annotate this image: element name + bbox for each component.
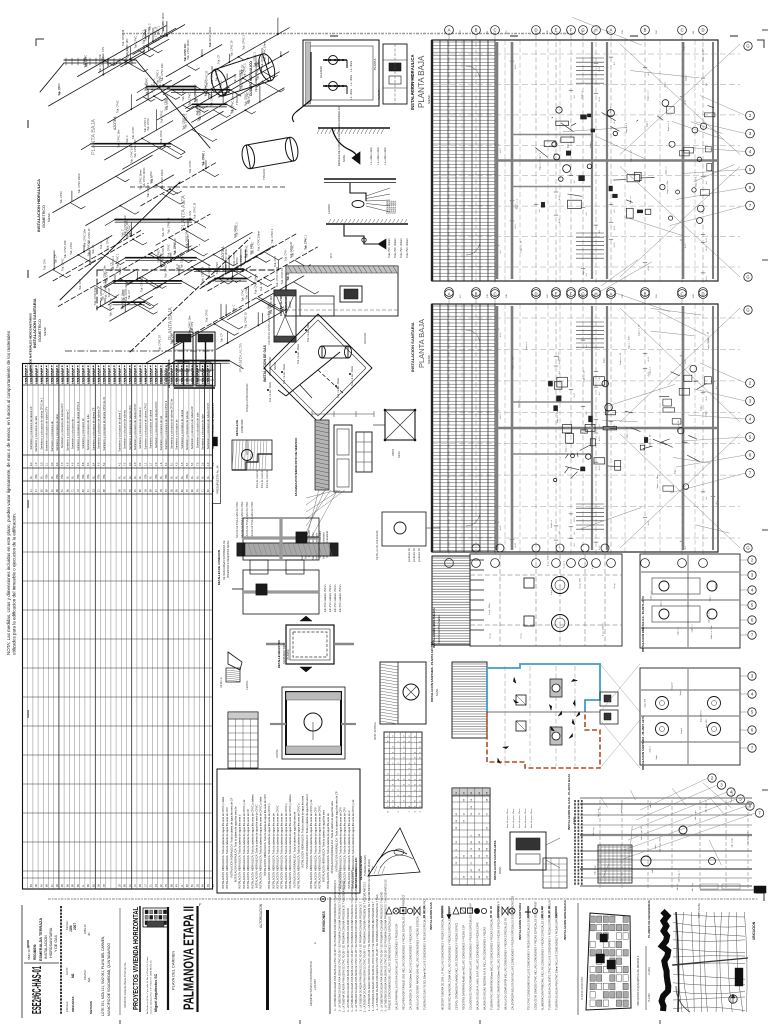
legend entry: CODO DE 90 GRADOS CPVC — [532, 908, 537, 913]
svg-text:ISOMETRICO: ISOMETRICO — [42, 205, 46, 228]
long dashed run upper sanitary isometric — [130, 186, 285, 188]
svg-text:baja 1: baja 1 — [649, 745, 651, 752]
svg-text:Suministro y colocacion de tub: Suministro y colocacion de tuberia CP — [29, 406, 33, 449]
instalacion sanitaria planta baja door swing arcs — [466, 330, 480, 344]
svg-text:DE DESCARGAS SANITARIAS DE: DE DESCARGAS SANITARIAS DE — [223, 540, 226, 580]
svg-text:COLADERA DE PISO CROMADA INCLU: COLADERA DE PISO CROMADA INCLUYE CONEXIO… — [470, 903, 473, 1010]
svg-text:INSTALACION HIDRAULICA: Toda l: INSTALACION HIDRAULICA: Toda la tuberia … — [280, 813, 284, 889]
svg-text:INSTALACION SANITARIA - PLANTA: INSTALACION SANITARIA - PLANTA ALTA — [641, 716, 645, 770]
instalacion sanitaria planta baja extra vertical partition lines — [461, 304, 463, 552]
svg-text:REGIMEN:: REGIMEN: — [33, 944, 37, 960]
svg-text:Tub. CPVC 19mm: Tub. CPVC 19mm — [78, 173, 81, 193]
svg-text:Tub. CP: Tub. CP — [162, 227, 165, 236]
legend entry: BAJADA DE AGUA PLUVIAL B — [474, 908, 479, 913]
svg-text:Tub. CPVC: Tub. CPVC — [132, 126, 135, 139]
svg-text:PALMANOVA ETAPA II: PALMANOVA ETAPA II — [182, 906, 198, 1010]
svg-text:INSTALACION HIDRAULICA: Toda l: INSTALACION HIDRAULICA: Toda la tuberia … — [309, 799, 313, 889]
legend entry: MEDIDOR TUBERIA DE GAS L — [441, 906, 443, 918]
svg-text:INSTALACION HIDRAULICA: Toda l: INSTALACION HIDRAULICA: Toda la tuberia … — [259, 796, 263, 889]
svg-text:Tub. C: Tub. C — [119, 267, 122, 275]
detail: registro section with circle — [282, 687, 345, 759]
svg-text:INSTALACION SANITARIA - PLANTA: INSTALACION SANITARIA - PLANTA AZOTEA — [430, 642, 434, 702]
svg-text:INSTALACION SANITARIA: INSTALACION SANITARIA — [32, 298, 37, 348]
svg-text:PLANO: PLANO — [648, 993, 651, 1002]
svg-text:TEE CPVC CONEXIONES INCLUYE CO: TEE CPVC CONEXIONES INCLUYE CONEXIONES Y… — [528, 905, 531, 1010]
svg-text:Tub. CPVC: Tub. CPVC — [252, 242, 255, 255]
svg-text:TINACO: TINACO — [235, 93, 239, 105]
svg-text:baja c.o. 1: baja c.o. 1 — [696, 176, 698, 187]
svg-text:TUBERIA DE AGUA CALIENTE CPVC: TUBERIA DE AGUA CALIENTE CPVC INCLUYE CO… — [549, 900, 552, 1010]
svg-text:Tub. CPV: Tub. CPV — [44, 259, 47, 270]
svg-text:baja c.o. 19: baja c.o. 19 — [521, 240, 523, 252]
svg-text:INSTALACION DE GAS: INSTALACION DE GAS — [263, 344, 267, 382]
colored plan right appendage rects — [600, 692, 618, 706]
svg-text:CORTE: CORTE — [276, 749, 279, 758]
colored plan left hatch strip — [452, 662, 487, 738]
legend entry: COLADERA DE PISO CROMADA — [467, 908, 472, 913]
svg-text:DETALLE DE: DETALLE DE — [235, 420, 239, 436]
azotea tinacos (two circles) — [552, 577, 569, 594]
svg-text:PZA: PZA — [82, 474, 85, 479]
svg-text:tub. f: tub. f — [654, 843, 657, 848]
svg-text:b.a.p: b.a.p — [521, 633, 523, 639]
svg-text:Suministro y colocacion de tub: Suministro y colocacion de tuberia CP — [97, 406, 101, 449]
svg-text:baja c.o.: baja c.o. — [666, 166, 668, 175]
svg-text:Tub. CPVC 19m: Tub. CPVC 19m — [104, 265, 107, 283]
svg-text:b.a.p. 100mm: b.a.p. 100mm — [547, 553, 549, 567]
svg-text:BAJADA DE AGUAS NEGRAS B.A.N.: BAJADA DE AGUAS NEGRAS B.A.N. INCLUYE CO… — [484, 927, 487, 1010]
svg-text:VER ISOMETRICO HID. 1: VER ISOMETRICO HID. 1 — [254, 60, 258, 92]
svg-text:baja c.o. 19m: baja c.o. 19m — [629, 335, 631, 348]
svg-text:Tub. CPVC: Tub. CPVC — [165, 265, 168, 278]
svg-text:Tub. CPVC: Tub. CPVC — [135, 36, 138, 49]
svg-text:Tub. CPVC: Tub. CPVC — [206, 309, 209, 322]
detail: registro sanitario tipo (plan) — [286, 625, 334, 664]
svg-text:TUBERIA PVC SANITARIO 50mm INC: TUBERIA PVC SANITARIO 50mm INCLUYE CONEX… — [491, 918, 494, 1010]
legend entry: TUBERIA DE AGUA FRIA CPV — [555, 906, 557, 918]
svg-text:INSTALACION HIDRAULICA: Toda l: INSTALACION HIDRAULICA: Toda la tuberia … — [288, 794, 292, 889]
svg-text:Tub. CPVC: Tub. CPVC — [174, 242, 177, 255]
svg-text:CESPOL CROMADO P/LAVABO INCLUY: CESPOL CROMADO P/LAVABO INCLUYE CONEXION… — [456, 923, 459, 1010]
title block B: fields header dense line — [60, 906, 62, 1014]
table group separator verticals — [58, 364, 60, 890]
instalacion sanitaria planta baja column grid bubbles bottom row — [445, 559, 454, 568]
svg-text:Tub. Fo.Go. 19mm: Tub. Fo.Go. 19mm — [297, 344, 300, 364]
svg-text:INSTALACION HIDRAULICA: Toda l: INSTALACION HIDRAULICA: Toda la tuberia … — [271, 813, 275, 889]
svg-text:pendiente 2%: pendiente 2% — [413, 548, 416, 562]
svg-text:tub. fo.go.: tub. fo.go. — [620, 803, 623, 813]
svg-text:Tub. CPVC 1: Tub. CPVC 1 — [142, 29, 145, 44]
svg-text:b.a.p. 100m: b.a.p. 100m — [551, 583, 553, 595]
svg-text:Tuerca union: Tuerca union — [394, 200, 397, 214]
top-right tiny reference boxes above title strip — [700, 889, 754, 891]
svg-text:Suministro y colocacion de tub: Suministro y colocacion de tuberia CPV — [128, 405, 132, 450]
svg-text:INSTALACION HIDRAULICA: Toda l: INSTALACION HIDRAULICA: Toda la tuberia … — [343, 807, 347, 889]
table: mini grid under palapa — [543, 858, 567, 888]
logo: miguel arquitectos building icon — [143, 908, 168, 927]
svg-text:PZA: PZA — [98, 474, 101, 479]
svg-text:tubo PVC sanitario 150mm: tubo PVC sanitario 150mm — [334, 584, 337, 612]
svg-text:Suministro y colocacion de tub: Suministro y colocacion de tuberia CPVC — [211, 403, 215, 450]
svg-text:1.- LA TUBERIA DE AGUA FRIA SE: 1.- LA TUBERIA DE AGUA FRIA SERA DE CPVC… — [376, 894, 379, 1010]
svg-text:BAJADA DE AGUA PLUVIAL B.A.P.: BAJADA DE AGUA PLUVIAL B.A.P. INCLUYE CO… — [477, 922, 480, 1010]
svg-text:ALIMENTACION PRINCIPAL INCLUYE: ALIMENTACION PRINCIPAL INCLUYE CONEXIONE… — [542, 907, 545, 1010]
detail: ducto de ventilacion — [274, 290, 296, 342]
svg-text:INSTALACION HIDRAULICA: Toda l: INSTALACION HIDRAULICA: Toda la tuberia … — [225, 807, 229, 889]
svg-text:sube c.o.: sube c.o. — [650, 591, 652, 600]
svg-text:llave de paso 13mm: llave de paso 13mm — [507, 808, 509, 828]
svg-text:DETALLE DE PASO: DETALLE DE PASO — [359, 856, 363, 880]
street map main avenue thick — [676, 912, 679, 1012]
svg-text:Tub. CPVC: Tub. CPVC — [244, 93, 247, 106]
gas plan left tiny text column — [574, 800, 576, 885]
svg-text:F: F — [570, 292, 573, 297]
svg-text:sube c.o. 13: sube c.o. 13 — [708, 611, 710, 624]
svg-text:Tub. C: Tub. C — [232, 304, 235, 312]
svg-text:Suministro y colocacion de: Suministro y colocacion de — [50, 421, 54, 452]
svg-text:DETALLES DE CONEXION: DETALLES DE CONEXION — [217, 550, 221, 585]
svg-text:Suministro y colocacion de tub: Suministro y colocacion de tuberia CPV — [60, 403, 64, 448]
svg-text:B: B — [644, 28, 647, 33]
svg-text:PLANTA BAJA: PLANTA BAJA — [417, 319, 426, 368]
svg-text:Tub. CPVC 19m: Tub. CPVC 19m — [125, 283, 128, 301]
svg-text:baja c.o.: baja c.o. — [519, 399, 521, 408]
svg-text:Tubo PVC 100mm: Tubo PVC 100mm — [406, 238, 409, 258]
svg-text:tub. fo.g: tub. fo.g — [597, 808, 600, 817]
svg-text:sube c.: sube c. — [661, 599, 663, 606]
svg-text:baja c.o. 19: baja c.o. 19 — [584, 370, 586, 382]
svg-text:c.o. cobre 13mm: c.o. cobre 13mm — [370, 147, 373, 165]
title block: outer horizontal rules — [21, 905, 23, 1018]
svg-text:METROS: METROS — [89, 1001, 93, 1014]
mini plan 1 with registro square — [243, 518, 319, 560]
detail: cuadro hidraulico frame — [303, 40, 379, 106]
svg-text:Tub. CPVC 19m: Tub. CPVC 19m — [130, 145, 133, 163]
svg-text:baja c.o: baja c.o — [551, 519, 553, 527]
margin tick marks — [27, 120, 29, 128]
svg-text:S/ESC.: S/ESC. — [343, 154, 346, 162]
street map curved ring road — [676, 986, 690, 1012]
svg-text:INSTALACION HIDRAULICA: INSTALACION HIDRAULICA — [36, 179, 41, 232]
svg-text:SANITARIO TIPO: SANITARIO TIPO — [282, 643, 286, 664]
instalacion sanitaria planta baja central bathroom cluster — [554, 382, 562, 390]
svg-text:INDICADAS: INDICADAS — [71, 996, 75, 1012]
svg-text:ARQUITECTONICO CONSTRUCTIVO: ARQUITECTONICO CONSTRUCTIVO — [309, 961, 313, 1006]
svg-text:INSTALACION HIDRAULICA: Toda l: INSTALACION HIDRAULICA: Toda la tuberia … — [267, 803, 271, 889]
svg-text:Tub. CPVC: Tub. CPVC — [158, 250, 161, 263]
svg-text:ACOT:: ACOT: — [65, 967, 69, 975]
svg-text:1.- LA TUBERIA DE AGUA FRIA SE: 1.- LA TUBERIA DE AGUA FRIA SERA DE CPVC… — [368, 869, 371, 1011]
instalacion sanitaria planta baja outer walls — [432, 304, 718, 552]
svg-text:TANQUE VS MUEBLE: TANQUE VS MUEBLE — [284, 285, 288, 313]
svg-text:baja c.o. 19: baja c.o. 19 — [620, 352, 622, 364]
svg-text:S/ESC.: S/ESC. — [274, 361, 277, 370]
fachada leader labels cluster — [306, 490, 337, 498]
svg-text:baja c.o. 19: baja c.o. 19 — [650, 434, 652, 446]
svg-text:baja 1: baja 1 — [681, 727, 683, 734]
svg-text:Tub. CPVC: Tub. CPVC — [189, 160, 192, 173]
svg-text:1.- LA TUBERIA DE AGUA FRIA SE: 1.- LA TUBERIA DE AGUA FRIA SERA DE CPVC… — [334, 880, 337, 1011]
svg-text:INSTALACION HIDRAULICA: Toda l: INSTALACION HIDRAULICA: Toda la tuberia … — [301, 795, 305, 868]
plan: instalacion hidraulica planta alta (right, small) — [640, 554, 740, 648]
svg-text:baja c: baja c — [685, 74, 687, 81]
svg-text:1.- LA TUBERIA DE AGUA FRIA SE: 1.- LA TUBERIA DE AGUA FRIA SERA DE CPVC… — [343, 880, 346, 1013]
svg-text:PZA: PZA — [61, 474, 64, 479]
svg-text:INSTALACION HIDRAULICA: Toda l: INSTALACION HIDRAULICA: Toda la tuberia … — [305, 794, 309, 869]
svg-text:Tub. CPVC 19mm: Tub. CPVC 19mm — [162, 12, 165, 32]
table: materiales de gas (small schedule) — [452, 788, 490, 885]
svg-text:c.o. 19mm: c.o. 19mm — [350, 75, 353, 86]
svg-text:tubo PVC sanitario 150mm: tubo PVC sanitario 150mm — [339, 584, 342, 612]
street map grid streets — [673, 914, 745, 917]
cuadro hidraulico wall hatch strip — [306, 42, 311, 104]
legend entry: RECUPERADOR TANQUE GAS — [400, 908, 406, 914]
svg-text:ESMERALDA TERRAZA: ESMERALDA TERRAZA — [39, 918, 43, 961]
svg-text:baja c.o. 19m: baja c.o. 19m — [702, 48, 704, 61]
svg-text:C: C — [680, 28, 683, 33]
svg-text:Tub. Fo.Go. 19mm: Tub. Fo.Go. 19mm — [337, 378, 340, 398]
svg-text:INSTALACION HIDRAULICA: Toda l: INSTALACION HIDRAULICA: Toda la tuberia … — [250, 794, 254, 889]
svg-text:b.a.p.: b.a.p. — [614, 582, 616, 588]
svg-text:PLANTA BAJA: PLANTA BAJA — [417, 55, 426, 108]
svg-text:SALIDA P/PARRILLA ESTUFA GAS I: SALIDA P/PARRILLA ESTUFA GAS INCLUYE CON… — [396, 923, 399, 1010]
svg-text:baja c.o. 1: baja c.o. 1 — [668, 120, 670, 131]
svg-text:S/ESC.: S/ESC. — [47, 212, 51, 222]
svg-text:DETALLE DE COLADERA: DETALLE DE COLADERA — [376, 530, 379, 560]
svg-text:MUNICIPIO DE SOLIDARIDAD, QUIN: MUNICIPIO DE SOLIDARIDAD, QUINTANA ROO — [107, 943, 111, 1016]
svg-text:b.a.p. 1: b.a.p. 1 — [564, 560, 566, 568]
fachada door panel — [334, 425, 352, 492]
svg-text:Tub. C: Tub. C — [151, 175, 154, 183]
table: cuadro de registros (small) — [228, 712, 258, 768]
svg-text:Suministro y colocacion de tub: Suministro y colocacion de tuberia C — [117, 410, 121, 451]
svg-text:NOTA: Las medidas, cotas y d: NOTA: Las medidas, cotas y dimensiones i… — [6, 330, 11, 655]
svg-text:A: A — [610, 28, 613, 33]
svg-text:Tub. CPVC: Tub. CPVC — [116, 100, 119, 113]
legend entry: VALVULA DE CIERRE RAPIDO — [414, 907, 420, 915]
right margin section ticks — [762, 29, 768, 31]
detail: ventilacion with hatch and circle — [380, 662, 426, 724]
svg-text:Suministro y colocacion de tub: Suministro y colocacion de tuberia CPVC — [133, 403, 137, 450]
svg-text:CALENTADOR DE PASO 13mm INCLUY: CALENTADOR DE PASO 13mm INCLUYE CONEXION… — [410, 925, 413, 1010]
svg-text:CLAVE: CLAVE — [648, 967, 651, 975]
svg-text:Cancun, Quintana Roo C.P. 775: Cancun, Quintana Roo C.P. 77500 Tel. (99… — [150, 960, 153, 1014]
svg-text:baja c.o. 19m: baja c.o. 19m — [513, 356, 515, 369]
svg-text:Suministro y colocacion de: Suministro y colocacion de — [81, 418, 85, 449]
svg-text:baja c.: baja c. — [674, 467, 676, 474]
svg-text:tub. fo.: tub. fo. — [649, 801, 652, 808]
diagram: instalacion de gas isometrico (diamond) — [264, 314, 372, 422]
svg-text:Suministro y colocacion de tub: Suministro y colocacion de tuberia CPVC … — [39, 397, 43, 450]
svg-text:A: A — [448, 292, 451, 297]
instalacion hidraulica planta baja stair hatches — [576, 57, 604, 59]
detail: right small plan with circle — [382, 512, 426, 546]
table row dividers (horizontal) — [23, 384, 213, 386]
svg-text:baja c.o.: baja c.o. — [583, 266, 585, 275]
svg-text:tub. fo.: tub. fo. — [676, 883, 679, 890]
svg-text:C: C — [680, 292, 683, 297]
svg-text:DETALLE DE CODO DE REGADERA HI: DETALLE DE CODO DE REGADERA HIDRAULICO — [337, 106, 341, 166]
svg-text:PZA: PZA — [155, 474, 158, 479]
svg-text:Tub. CPVC: Tub. CPVC — [106, 237, 109, 250]
svg-text:Tub. CPVC: Tub. CPVC — [189, 93, 192, 106]
svg-text:Tub. CPVC 1: Tub. CPVC 1 — [156, 69, 159, 84]
svg-text:Suministro y colocacion de tub: Suministro y colocacion de tuberia CPVC … — [76, 401, 80, 450]
fachada dimension line top — [312, 413, 374, 415]
gas plan hatched block — [598, 845, 632, 883]
instalacion hidraulica planta baja horizontal grid lines — [432, 53, 740, 55]
fachada window grid — [356, 432, 372, 472]
svg-text:Tub. CPVC: Tub. CPVC — [222, 265, 225, 278]
svg-text:AZOTEA: AZOTEA — [113, 116, 117, 130]
legend entry: TUBERIA PVC SANITARIO 10 — [497, 906, 499, 918]
legend entry: VALVULA DE COMPUERTA — [502, 907, 508, 915]
svg-text:Tub. CP: Tub. CP — [55, 254, 58, 263]
svg-text:Tub. CPVC 19m: Tub. CPVC 19m — [117, 130, 120, 148]
svg-text:sube c.: sube c. — [715, 581, 717, 588]
svg-text:AZOTEA: AZOTEA — [221, 246, 225, 260]
svg-text:Suministro y colocacion de tub: Suministro y colocacion de tuberia — [123, 410, 127, 449]
revisiones divider — [329, 897, 331, 1014]
svg-text:S/ESC.: S/ESC. — [427, 354, 431, 364]
plan: instalacion sanitaria planta alta (right small) — [640, 668, 740, 765]
fachada hatched column — [315, 420, 329, 490]
title block A divider — [24, 962, 59, 964]
svg-text:INSTALACION HIDRAULICA: Toda l: INSTALACION HIDRAULICA: Toda la tuberia … — [246, 809, 250, 889]
instalacion sanitaria planta baja long X diagonals right field — [620, 308, 740, 422]
instalacion sanitaria planta baja right margin grid bubbles with leaders — [746, 379, 755, 388]
svg-text:TUBERIA DE AGUA FRIA CPVC 19mm: TUBERIA DE AGUA FRIA CPVC 19mm INCLUYE C… — [556, 912, 559, 1010]
svg-text:DETALLE: DETALLE — [220, 677, 223, 688]
svg-text:Tub. Fo.Go. 19mm: Tub. Fo.Go. 19mm — [269, 382, 272, 402]
svg-text:Tub. Fo.Go. 19mm: Tub. Fo.Go. 19mm — [307, 322, 310, 342]
sanitaria alta fixtures circles — [656, 697, 669, 710]
red dashed outline (lower dwelling boundary) — [487, 712, 600, 768]
svg-text:JUN 2007: JUN 2007 — [314, 978, 317, 990]
svg-text:sube c.o.: sube c.o. — [677, 626, 679, 635]
svg-text:Tub. CP: Tub. CP — [108, 288, 111, 297]
svg-text:baja c.: baja c. — [701, 404, 703, 411]
svg-text:PZA: PZA — [35, 474, 38, 479]
svg-text:baja c.: baja c. — [610, 106, 612, 113]
svg-text:PZA: PZA — [165, 474, 168, 479]
divider before site plan — [577, 903, 579, 1015]
svg-text:Miguel Arquitectos SC: Miguel Arquitectos SC — [154, 973, 158, 1012]
gas plan vertical stubs — [599, 800, 601, 890]
svg-text:baja c.o. 1: baja c.o. 1 — [517, 198, 519, 209]
detail: tarja planta (narrow tall) — [383, 44, 407, 104]
svg-text:Tub. CPVC 1: Tub. CPVC 1 — [144, 117, 147, 132]
top margin file-path text line — [122, 33, 575, 35]
colored plan interior walls — [487, 711, 600, 713]
svg-text:Suministro y colocacion de: Suministro y colocacion de — [175, 419, 179, 450]
svg-text:Tub. CPVC 19m: Tub. CPVC 19m — [161, 63, 164, 81]
svg-text:1.- LA TUBERIA DE AGUA FRIA SE: 1.- LA TUBERIA DE AGUA FRIA SERA DE CPVC… — [372, 901, 375, 1011]
svg-text:B: B — [644, 292, 647, 297]
svg-text:C: C — [493, 28, 496, 33]
azotea bubbles top — [472, 544, 480, 552]
legend entry: REGISTRO SANITARIO 40x60 — [460, 908, 465, 913]
svg-text:PZA: PZA — [56, 474, 59, 479]
svg-text:DETALLE REGISTRO: DETALLE REGISTRO — [277, 639, 281, 668]
instalacion sanitaria planta baja tick labels along verticals — [594, 461, 598, 463]
svg-text:PLANTA: PLANTA — [377, 89, 381, 100]
svg-text:INSTALACION HIDRAULICA: Toda l: INSTALACION HIDRAULICA: Toda la tuberia … — [221, 796, 225, 889]
autorizacion heavy bar — [266, 910, 269, 1010]
thick rule before project name — [167, 907, 169, 1010]
svg-text:Tub. CP: Tub. CP — [220, 333, 223, 342]
site plan house rows — [590, 916, 595, 922]
svg-text:Suministro y colocacion de tub: Suministro y colocacion de tube — [34, 415, 38, 452]
detail: cespol funnel — [228, 652, 242, 670]
svg-text:Suministro y colocacion de tub: Suministro y colocacion de tuberia — [149, 409, 153, 448]
svg-text:c.o. 19mm: c.o. 19mm — [350, 61, 353, 72]
svg-text:UBICACION ESQUEMATICA PALMANOV: UBICACION ESQUEMATICA PALMANOVA II — [637, 955, 640, 1006]
svg-text:Tub. CPVC: Tub. CPVC — [268, 302, 271, 315]
thick rule after project name — [196, 906, 198, 1012]
svg-text:Tub. CPVC 1: Tub. CPVC 1 — [242, 35, 245, 50]
svg-text:INSTALACION SANITARIA: INSTALACION SANITARIA — [518, 902, 522, 940]
legend entry: TUBERIA PVC SANITARIO 50 — [490, 906, 492, 918]
instalacion hidraulica planta baja column grid bubbles top row — [445, 26, 454, 35]
svg-text:CUADRO HIDRAULICO: CUADRO HIDRAULICO — [249, 61, 253, 96]
colored plan diagonal cross region right — [600, 664, 640, 712]
svg-text:RECUPERADOR TANQUE GAS INCLUYE: RECUPERADOR TANQUE GAS INCLUYE CONEXIONE… — [403, 894, 406, 1010]
notes: notas generales block — [217, 769, 360, 893]
svg-text:baja c.o: baja c.o — [540, 161, 542, 169]
svg-text:Suministro y colocacion de tub: Suministro y colocacion de tuberia CPVC … — [102, 396, 106, 450]
svg-text:tub. fo.go.: tub. fo.go. — [694, 810, 697, 820]
svg-text:baja 1: baja 1 — [680, 688, 682, 695]
svg-text:TUBERIA PVC SANITARIO 100mm IN: TUBERIA PVC SANITARIO 100mm INCLUYE CONE… — [498, 901, 501, 1010]
svg-text:tub. fo.go.: tub. fo.go. — [731, 837, 734, 847]
instalacion sanitaria planta baja column grid bubbles top row — [445, 290, 454, 299]
cuadro hidraulico riser pipe — [310, 52, 312, 100]
svg-text:UBICACION: UBICACION — [752, 921, 756, 940]
svg-text:INSTALACION HIDRAULICA: Toda l: INSTALACION HIDRAULICA: Toda la tuberia … — [255, 804, 259, 888]
svg-text:PZA: PZA — [87, 474, 90, 479]
instalacion hidraulica planta baja scattered leader diagonals right part — [563, 128, 627, 132]
title block: top disclaimer text line — [48, 898, 758, 900]
svg-text:1.- LA TUBERIA DE AGUA FRIA SE: 1.- LA TUBERIA DE AGUA FRIA SERA DE CPVC… — [355, 868, 358, 1011]
svg-text:S/ESC.: S/ESC. — [436, 688, 439, 696]
svg-text:Tub. CPVC 1: Tub. CPVC 1 — [236, 222, 239, 237]
svg-text:INSTALACION HIDRAULICA: Toda l: INSTALACION HIDRAULICA: Toda la tuberia … — [318, 805, 322, 889]
svg-text:W.C.: W.C. — [329, 252, 333, 258]
gas plan leader diagonals — [600, 797, 607, 807]
svg-text:INSTALACION HIDRAULICA: INSTALACION HIDRAULICA — [563, 899, 567, 940]
svg-text:MAR CARIBE: MAR CARIBE — [698, 903, 701, 918]
svg-text:baja c.o: baja c.o — [684, 42, 686, 50]
svg-text:VENT. AZOTEA: VENT. AZOTEA — [374, 722, 377, 740]
svg-text:utilizados para la edificacion: utilizados para la edificacion del inmue… — [12, 513, 17, 655]
svg-text:Tub. CPVC: Tub. CPVC — [60, 191, 63, 204]
title block D divider thick — [139, 906, 141, 1012]
instalacion sanitaria planta baja stair hatches — [576, 321, 604, 323]
svg-text:G: G — [746, 275, 749, 280]
svg-text:Tub. CP: Tub. CP — [234, 74, 237, 83]
svg-text:1.- LA TUBERIA DE AGUA FRIA SE: 1.- LA TUBERIA DE AGUA FRIA SERA DE CPVC… — [364, 881, 367, 1012]
svg-text:Tub. CPVC 19: Tub. CPVC 19 — [122, 29, 125, 46]
svg-text:PLANTA BAJA: PLANTA BAJA — [168, 307, 174, 340]
svg-text:Tub. CPV: Tub. CPV — [191, 321, 194, 332]
instalacion sanitaria planta baja interior thick walls — [496, 306, 499, 550]
svg-text:Tub. CPVC: Tub. CPVC — [126, 46, 129, 59]
svg-text:Tub. CPVC: Tub. CPVC — [62, 258, 65, 271]
svg-text:D: D — [534, 28, 537, 33]
svg-text:ALZADO: ALZADO — [319, 65, 323, 78]
svg-text:baja c.o.: baja c.o. — [526, 341, 528, 350]
